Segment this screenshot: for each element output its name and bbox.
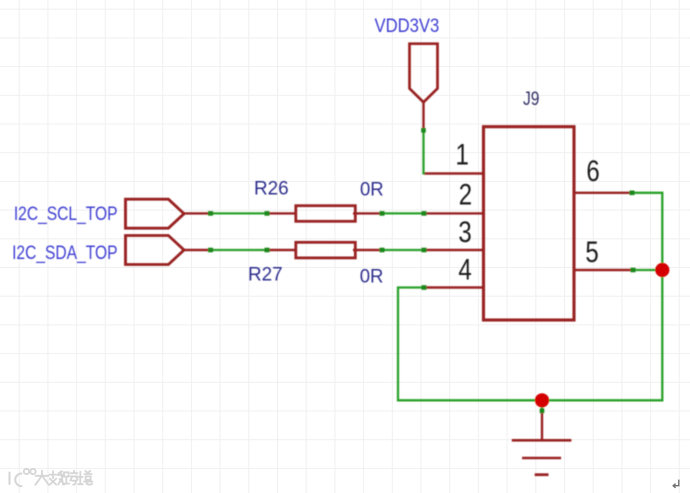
svg-text:5: 5 [585, 235, 598, 269]
svg-text:3: 3 [458, 214, 471, 248]
svg-text:0R: 0R [360, 266, 384, 288]
svg-text:6: 6 [586, 153, 599, 187]
svg-text:I2C_SDA_TOP: I2C_SDA_TOP [12, 241, 117, 264]
svg-text:J9: J9 [523, 87, 540, 109]
svg-text:0R: 0R [360, 179, 384, 201]
svg-text:R26: R26 [254, 178, 289, 199]
svg-text:I2C_SCL_TOP: I2C_SCL_TOP [14, 202, 118, 225]
svg-text:4: 4 [458, 252, 471, 286]
svg-text:1: 1 [456, 137, 469, 171]
svg-text:VDD3V3: VDD3V3 [375, 15, 440, 36]
svg-text:R27: R27 [248, 264, 283, 285]
svg-text:2: 2 [459, 177, 472, 211]
